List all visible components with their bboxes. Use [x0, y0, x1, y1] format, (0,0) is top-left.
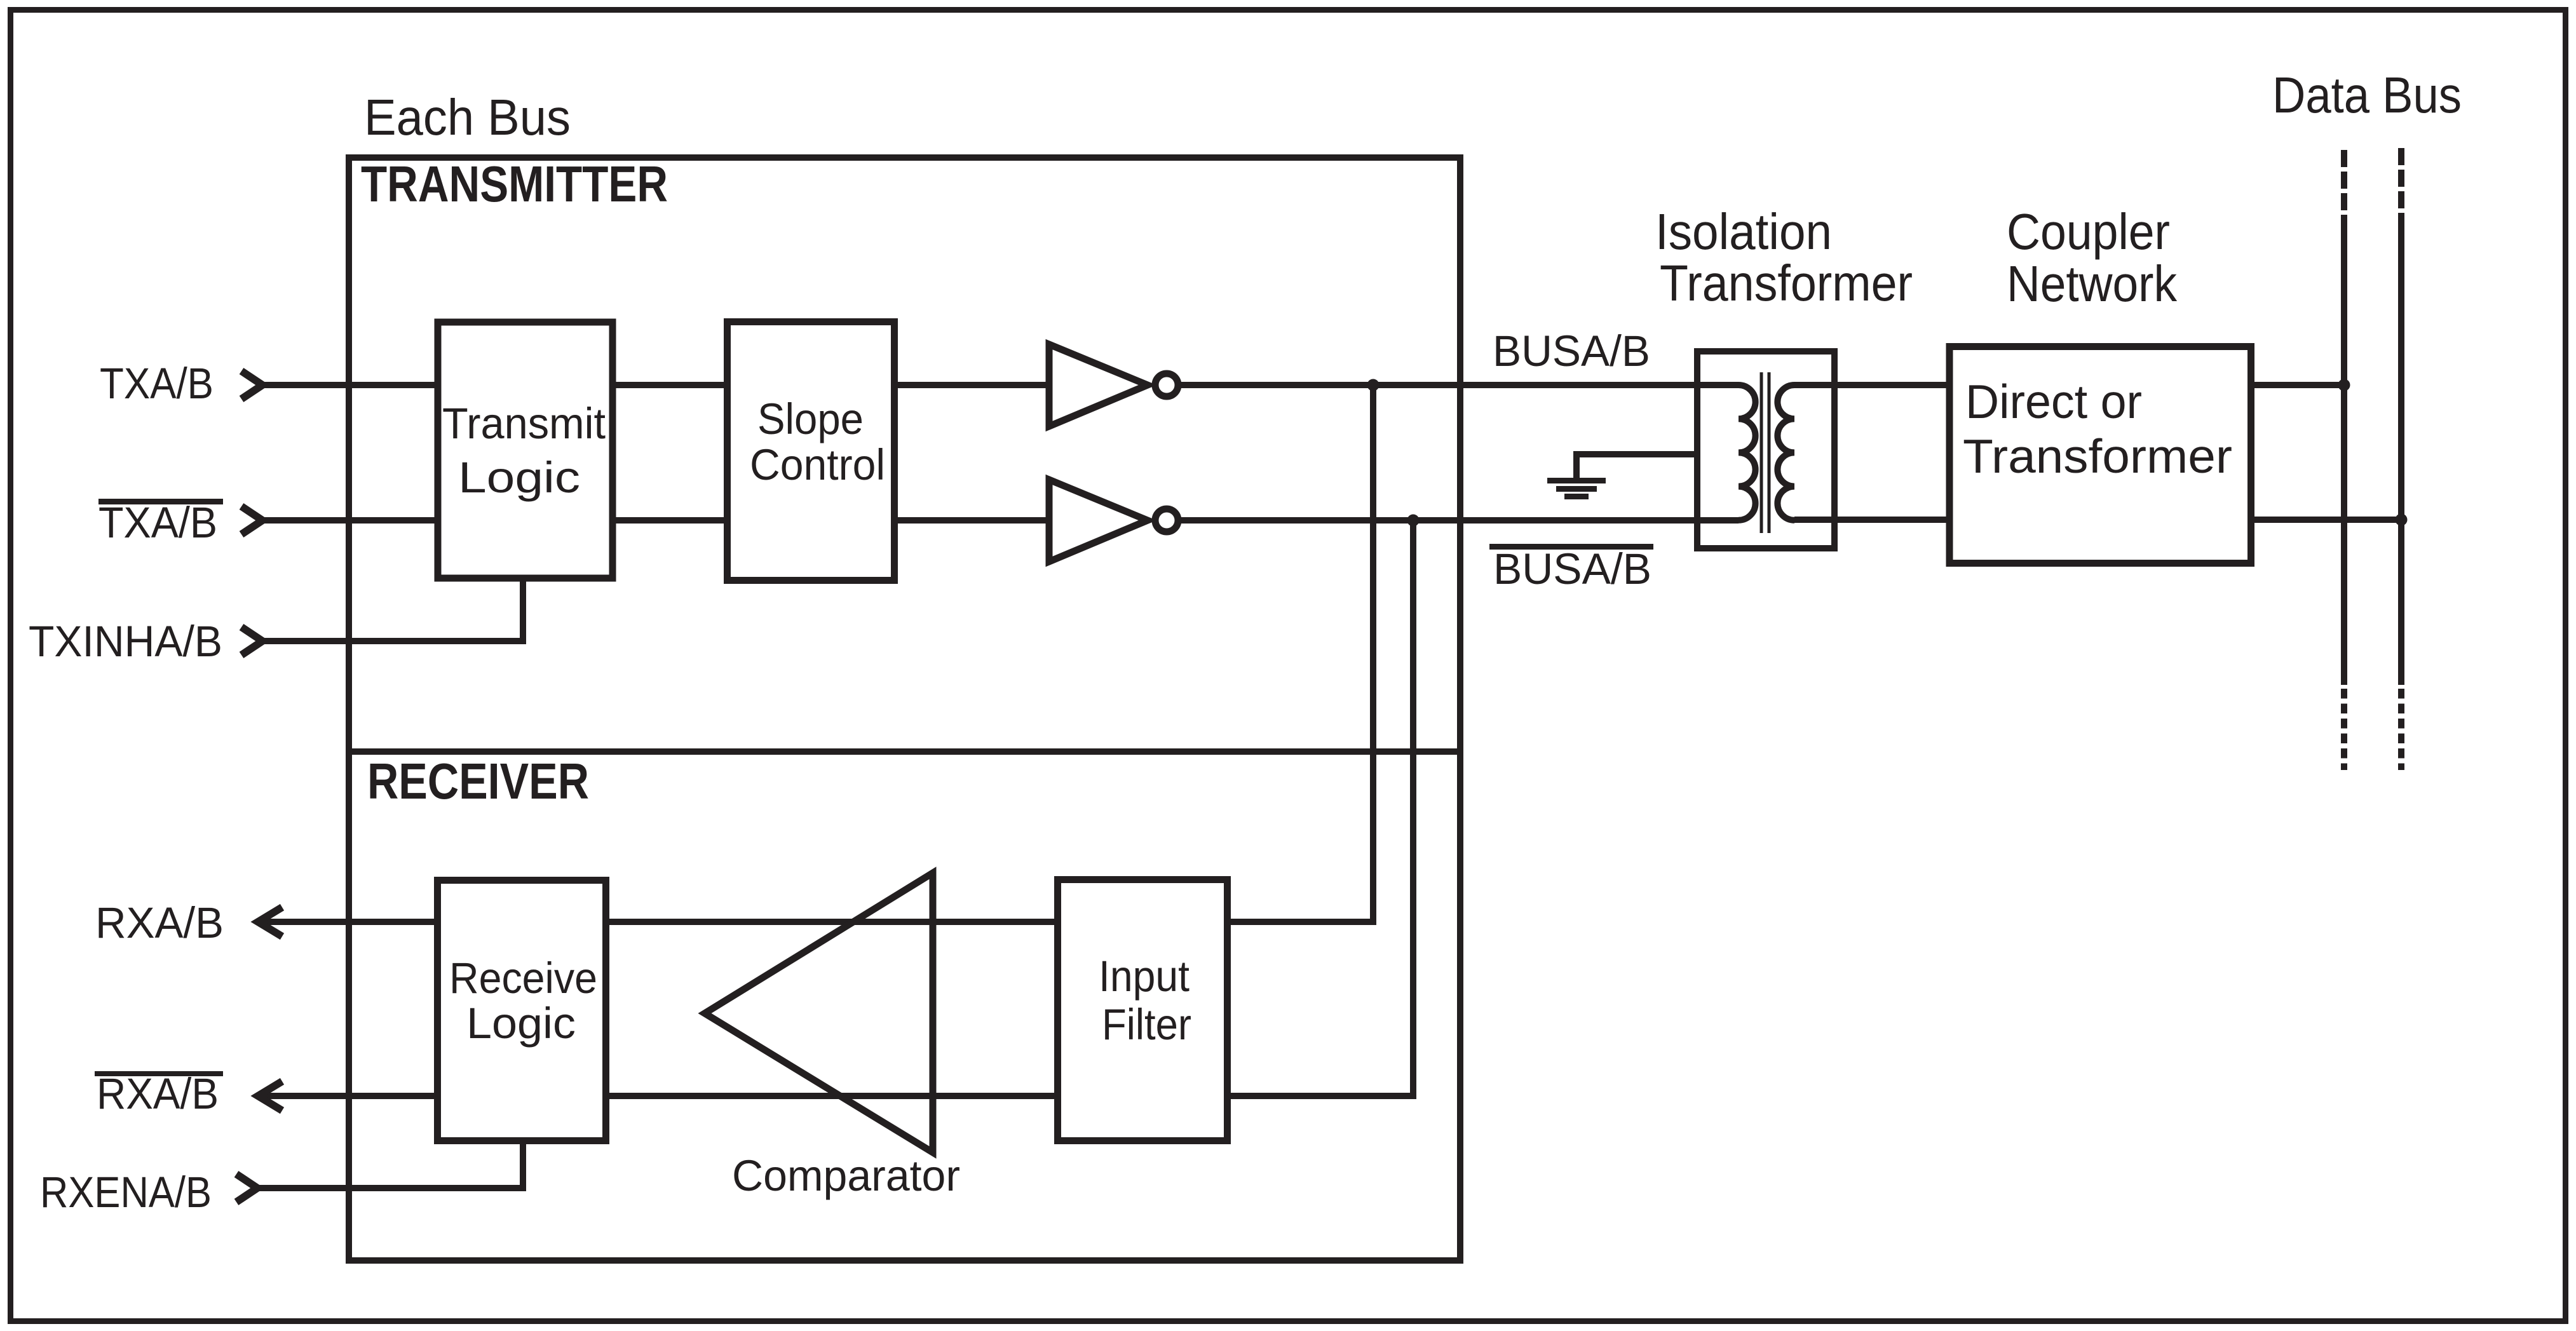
- svg-text:Logic: Logic: [466, 999, 576, 1048]
- svg-text:Comparator: Comparator: [732, 1151, 960, 1200]
- svg-text:Isolation: Isolation: [1655, 203, 1832, 260]
- svg-text:Filter: Filter: [1102, 1000, 1191, 1049]
- svg-text:Slope: Slope: [757, 395, 864, 443]
- svg-text:RXENA/B: RXENA/B: [40, 1168, 212, 1217]
- svg-text:RXA/B: RXA/B: [97, 1069, 219, 1118]
- svg-text:Logic: Logic: [458, 453, 580, 502]
- svg-text:RXA/B: RXA/B: [95, 898, 224, 947]
- svg-text:Receive: Receive: [449, 954, 597, 1003]
- svg-text:RECEIVER: RECEIVER: [367, 753, 589, 809]
- svg-text:TXINHA/B: TXINHA/B: [29, 617, 222, 666]
- svg-text:TXA/B: TXA/B: [100, 359, 214, 408]
- svg-text:Data Bus: Data Bus: [2272, 67, 2462, 123]
- svg-text:Control: Control: [750, 440, 885, 489]
- svg-text:BUSA/B: BUSA/B: [1493, 327, 1650, 375]
- svg-text:Coupler: Coupler: [2007, 203, 2170, 260]
- svg-text:BUSA/B: BUSA/B: [1493, 544, 1651, 593]
- svg-text:Direct or: Direct or: [1965, 375, 2142, 428]
- svg-text:TRANSMITTER: TRANSMITTER: [361, 156, 668, 212]
- svg-text:Transformer: Transformer: [1963, 429, 2232, 483]
- svg-text:Transmit: Transmit: [442, 399, 606, 448]
- svg-text:Transformer: Transformer: [1660, 255, 1913, 311]
- svg-text:Input: Input: [1099, 952, 1190, 1001]
- svg-text:Network: Network: [2007, 255, 2178, 312]
- svg-text:TXA/B: TXA/B: [98, 498, 217, 547]
- svg-text:Each Bus: Each Bus: [364, 89, 571, 145]
